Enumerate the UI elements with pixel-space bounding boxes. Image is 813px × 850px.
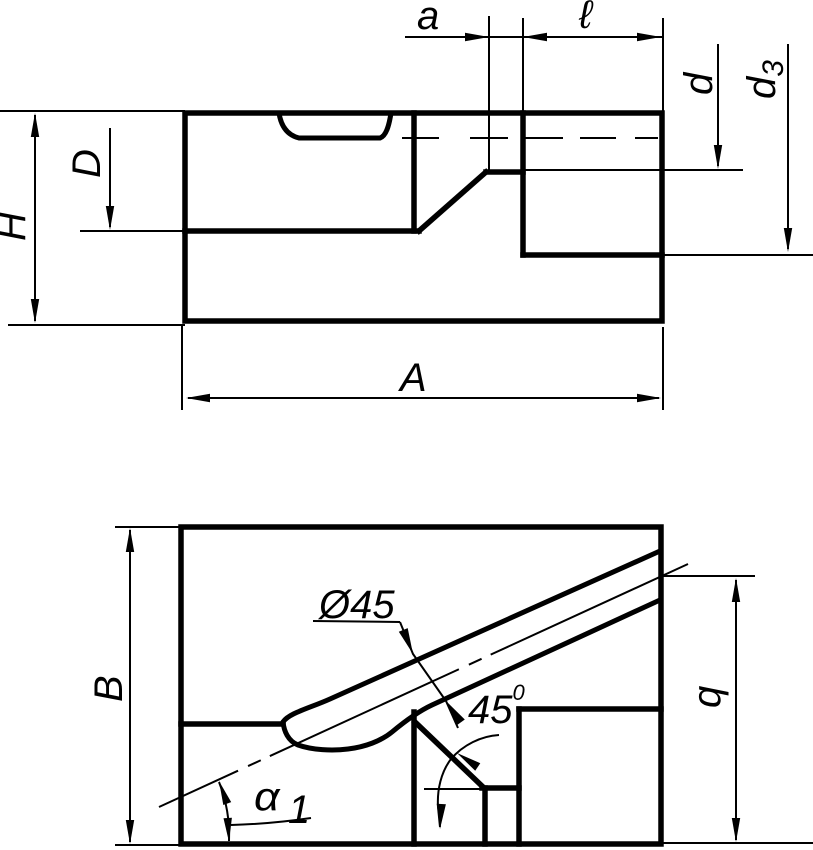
bottom view: hole centerline (dash-dot) — [159, 564, 688, 807]
dimension H: extension lines — [0, 111, 185, 325]
dimension H: arrow line — [34, 115, 36, 321]
dimension alpha1: label underline — [231, 818, 311, 825]
svg-text:ℓ: ℓ — [578, 0, 594, 37]
bottom view: notch bottom edge — [482, 785, 519, 791]
dimension d: extension line — [524, 169, 743, 171]
dimension d3: arrow — [787, 44, 789, 249]
dimension B: extension lines — [115, 527, 181, 845]
dimension A: arrow line — [188, 397, 659, 399]
svg-text:B: B — [87, 675, 131, 702]
top view: chamfer diagonal — [419, 172, 486, 231]
dimension D: arrow — [109, 128, 111, 227]
dimension B: arrow line — [129, 530, 131, 842]
dimension diameter 45: leader underline — [313, 621, 400, 622]
bottom view: 45 deg chamfer — [415, 722, 483, 787]
top view: spigot shoulder — [486, 169, 523, 175]
dimension a: extension line — [488, 16, 490, 172]
svg-text:D: D — [65, 149, 109, 178]
top view: slot opening cap — [279, 113, 391, 138]
dimension a and l: shared dimension line — [405, 36, 662, 38]
top view: groove left wall — [520, 113, 526, 255]
top view: upper block right edge — [411, 113, 417, 231]
dimension l: extension lines — [523, 18, 663, 112]
dimension A: extension lines — [182, 325, 663, 410]
bottom view: step edge left of slot — [181, 721, 283, 727]
dimension d: arrow — [717, 44, 719, 166]
dimension q: extension line — [661, 575, 755, 577]
svg-text:A: A — [398, 356, 427, 400]
bottom edge extension line — [661, 842, 813, 844]
dimension alpha1: arc — [219, 782, 229, 841]
dimension q: arrow line — [735, 580, 737, 840]
top view: groove bottom at d3 level — [523, 252, 662, 258]
svg-text:H: H — [0, 212, 34, 241]
svg-text:a: a — [417, 0, 439, 38]
top view: step edge at D level — [185, 228, 419, 234]
bottom view: angled hole upper outline — [283, 551, 660, 722]
bottom view: right block top edge — [519, 706, 661, 712]
bottom view: middle rib left edge — [411, 712, 417, 844]
dimension D: extension line — [80, 230, 185, 232]
top view: part outline — [185, 113, 662, 321]
bottom view: angled hole lower outline with slot end cap — [283, 600, 660, 750]
bottom view: right block left wall — [516, 709, 522, 844]
svg-text:q: q — [685, 686, 729, 708]
svg-text:1: 1 — [288, 788, 310, 832]
dimension 45deg: arc with arrows — [438, 735, 499, 827]
bottom view: notch left wall — [482, 788, 488, 844]
dimension diameter 45: dimension line across hole — [400, 622, 458, 728]
svg-text:d: d — [677, 71, 721, 95]
bottom view: 45deg angle extension line — [424, 788, 483, 790]
svg-text:α: α — [254, 774, 281, 818]
bottom view: part outline — [181, 527, 661, 844]
top view: hidden hole line (dashed) — [402, 137, 658, 139]
dimension d3: extension line — [662, 254, 813, 256]
